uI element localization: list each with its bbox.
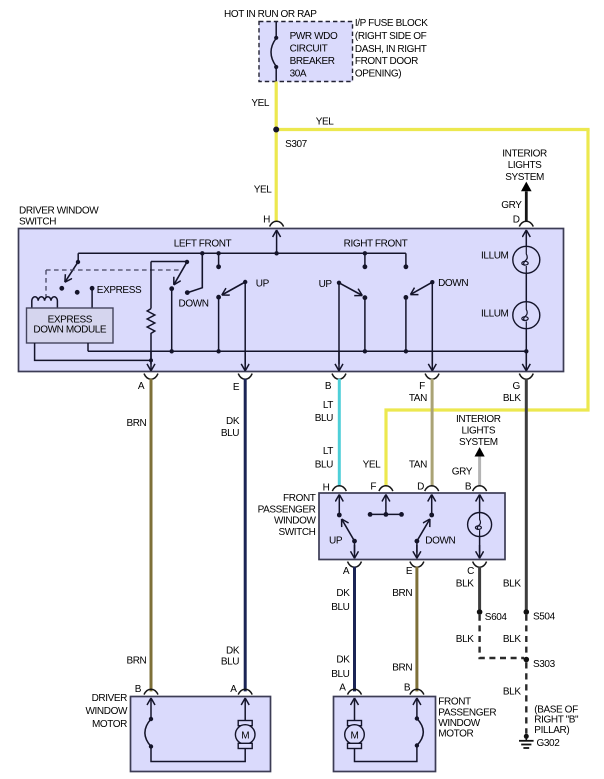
pin C arrow out of box [479,545,481,558]
svg-text:DRIVER: DRIVER [92,693,128,704]
motor M (passenger) [348,721,362,726]
wire between lamps [525,273,527,301]
node S303 [524,657,530,663]
svg-text:DK: DK [226,416,240,427]
wire BRN driver A to motor B [150,379,153,692]
svg-text:F: F [370,482,376,493]
switch lever RIGHT FRONT DOWN [410,282,432,294]
svg-text:BLK: BLK [456,579,474,590]
svg-text:PWR WDO: PWR WDO [290,31,338,42]
svg-text:LT: LT [323,446,333,457]
wire BLK dashed S504 to S303 [525,615,527,656]
switch lever (feed side, at rest) [189,253,203,292]
connector B (motor top) [410,689,424,694]
pin A arrow into motor [354,698,356,723]
svg-text:H: H [323,483,330,494]
connector A [144,374,158,380]
svg-text:LIGHTS: LIGHTS [461,426,495,437]
resistor R (feed to left front down) [150,262,152,309]
svg-text:DASH, IN RIGHT: DASH, IN RIGHT [355,44,427,55]
svg-text:SYSTEM: SYSTEM [505,172,544,183]
svg-text:RIGHT FRONT: RIGHT FRONT [344,239,408,250]
wire motor to breaker [355,746,417,762]
svg-text:LIGHTS: LIGHTS [508,160,542,171]
svg-text:BLK: BLK [503,579,521,590]
pin E arrow out of box [244,352,246,371]
node S504 [524,609,530,615]
contact node to ground [404,295,409,300]
svg-text:YEL: YEL [251,98,270,109]
svg-text:UP: UP [329,536,343,547]
switch lever PASSENGER DOWN [417,519,430,541]
svg-text:DOWN MODULE: DOWN MODULE [33,325,107,336]
pin F arrow into box [385,495,387,515]
connector H (top) [332,486,346,491]
svg-text:EXPRESS: EXPRESS [97,285,142,296]
pin H arrow into box [276,230,278,253]
pin G arrow out of box [525,352,527,371]
svg-text:DRIVER WINDOW: DRIVER WINDOW [19,206,99,217]
node S604 [477,609,483,615]
svg-text:BLK: BLK [456,634,474,645]
svg-text:S504: S504 [533,612,556,623]
switch lever EXPRESS [65,262,78,282]
motor M (driver) [238,721,252,726]
connector E (bottom) [410,562,424,568]
svg-text:DK: DK [226,646,240,657]
svg-text:S604: S604 [485,612,508,623]
wire express contact to module [91,288,93,308]
stub feed contact for RF UP [364,253,366,266]
svg-text:YEL: YEL [363,459,382,470]
pin A arrow out of box [150,352,152,371]
off-page arrow to interior lights [521,182,532,192]
svg-text:M: M [241,731,249,742]
node S307 [273,127,279,133]
wire BLK dashed S604 down and right to S303 [480,615,524,658]
wire internal top bus [78,252,406,254]
lamp ILLUM 1 [513,246,540,273]
inductor coil of express module [32,297,58,308]
svg-text:BLU: BLU [221,656,239,667]
mechanical linkage (dashed) [46,270,182,298]
svg-text:B: B [465,482,472,493]
module EXPRESS DOWN MODULE [27,308,114,343]
svg-text:BLU: BLU [331,669,349,680]
svg-text:GRY: GRY [452,467,473,478]
connector B (motor top) [144,689,158,694]
svg-text:(RIGHT SIDE OF: (RIGHT SIDE OF [355,31,427,42]
svg-text:BLK: BLK [503,393,521,404]
svg-text:BLK: BLK [503,634,521,645]
svg-text:30A: 30A [290,69,307,80]
svg-text:UP: UP [319,279,333,290]
wire module pin1 to pin A line [35,343,151,360]
svg-text:GRY: GRY [501,200,522,211]
circuit breaker (motor internal) [415,716,419,720]
connector F (top) [379,486,393,491]
svg-text:BLU: BLU [221,428,239,439]
svg-text:B: B [325,381,332,392]
connector D (top) [519,221,533,226]
contact node [169,286,174,291]
switch lever PASSENGER UP [342,519,355,541]
svg-text:LT: LT [323,400,333,411]
wire pin A line [354,541,356,552]
connector G [519,374,533,380]
wire resistor top link [151,261,187,263]
switch body [319,493,505,560]
pin H arrow into box [338,495,340,515]
connector A (motor top) [348,689,362,694]
svg-text:S307: S307 [285,139,308,150]
svg-text:MOTOR: MOTOR [438,729,473,740]
svg-text:BREAKER: BREAKER [290,56,335,67]
svg-text:F: F [419,381,425,392]
wire YEL branch S307 to right edge [276,128,589,131]
circuit breaker PWR WDO 30A [271,22,276,81]
connector E [238,374,252,380]
svg-text:B: B [135,684,142,695]
pin B arrow into motor [150,698,152,717]
wire pin B line [338,283,340,365]
svg-text:BLK: BLK [503,687,521,698]
svg-text:YEL: YEL [316,117,335,128]
svg-text:MOTOR: MOTOR [92,719,127,730]
svg-text:WINDOW: WINDOW [438,718,480,729]
svg-text:H: H [263,215,270,226]
svg-text:B: B [404,682,411,693]
circuit breaker (motor internal) [149,717,153,721]
svg-text:ILLUM: ILLUM [481,250,509,261]
svg-text:S303: S303 [533,659,556,670]
svg-text:D: D [513,215,520,226]
svg-text:BLU: BLU [315,459,333,470]
svg-text:YEL: YEL [254,185,273,196]
svg-text:INTERIOR: INTERIOR [502,149,547,160]
wire BLK passenger C to S604 [478,567,481,610]
wire internal ground bus [88,350,526,352]
connector A (motor top) [238,689,252,694]
svg-text:WINDOW: WINDOW [274,516,316,527]
svg-text:TAN: TAN [409,459,427,470]
wire resistor to pin A exit [150,336,152,365]
svg-text:UP: UP [256,278,270,289]
svg-text:BLU: BLU [315,413,333,424]
wire F contact bar [370,513,401,515]
off-page arrow to interior lights [475,447,485,456]
svg-text:SWITCH: SWITCH [19,217,56,228]
wire lamp to ground bus and pin G [525,329,527,365]
switch lever LEFT FRONT UP [222,282,245,295]
stub feed contact for UP [218,253,220,266]
contact node EXPRESS [90,286,95,291]
svg-text:PASSENGER: PASSENGER [438,707,496,718]
node H on bus [274,251,278,255]
svg-text:A: A [230,684,237,695]
svg-text:TAN: TAN [409,393,427,404]
pin B arrow out of box [338,352,340,371]
pin D arrow into box [525,230,527,246]
wire breaker to motor [151,747,245,762]
connector H (top) [270,221,284,226]
svg-text:G302: G302 [537,738,561,749]
contact node to ground [363,295,368,300]
svg-text:SWITCH: SWITCH [278,527,315,538]
connector A (bottom) [348,562,362,568]
wire YEL from breaker to S307 and on to switch pin H [275,82,278,222]
svg-text:INTERIOR: INTERIOR [456,414,501,425]
lamp ILLUM 2 [513,302,540,329]
stub feed contact for RF DOWN [405,253,407,266]
wire DK BLU passenger A to motor A [353,567,356,692]
pin A arrow into motor [244,698,246,723]
switch body [19,229,564,372]
svg-text:BRN: BRN [126,418,146,429]
svg-text:E: E [406,566,413,577]
svg-text:ILLUM: ILLUM [481,309,509,320]
wire pin E line [416,541,418,552]
wire BLK dashed S303 to ground [525,662,527,733]
rest contact node [75,290,80,295]
connector B (top) [473,486,487,491]
pin F arrow out of box [431,352,433,371]
wire bus drop to express switch [77,253,79,261]
svg-text:BRN: BRN [392,663,412,674]
wire BLK driver G to S504 [525,379,528,610]
wire module pin2 to ground bus [87,343,89,351]
svg-text:A: A [339,682,346,693]
contact node [59,286,64,291]
motor body [334,697,436,772]
motor body [131,697,271,772]
wire YEL right edge down and left to passenger switch pin F [386,130,588,487]
svg-text:HOT IN RUN OR RAP: HOT IN RUN OR RAP [224,9,317,20]
lamp illumination (passenger) [468,513,492,537]
svg-text:E: E [233,382,240,393]
svg-text:LEFT FRONT: LEFT FRONT [174,238,232,249]
svg-text:I/P FUSE BLOCK: I/P FUSE BLOCK [355,18,428,29]
pin A arrow out of box [354,545,356,558]
wire GRY stem to passenger pin B [478,457,481,487]
svg-text:FRONT: FRONT [438,697,471,708]
svg-text:DK: DK [336,655,350,666]
svg-text:WINDOW: WINDOW [86,706,128,717]
svg-text:OPENING): OPENING) [355,69,401,80]
svg-text:BRN: BRN [126,656,146,667]
wire contact to ground bus [171,289,173,352]
contact node to ground [216,295,221,300]
svg-text:A: A [343,566,350,577]
wire pin E line [244,282,246,364]
svg-text:BLU: BLU [331,602,349,613]
svg-text:DOWN: DOWN [179,298,209,309]
svg-text:BRN: BRN [392,588,412,599]
wire GRY stem to pin D [525,191,528,221]
svg-text:M: M [351,731,359,742]
svg-text:PASSENGER: PASSENGER [258,504,316,515]
svg-text:G: G [513,381,521,392]
pin D arrow into box [431,495,433,515]
pin E arrow out of box [416,545,418,558]
pin B arrow into box [479,495,481,513]
svg-text:CIRCUIT: CIRCUIT [290,44,328,55]
switch lever RIGHT FRONT UP [339,283,362,296]
wire BRN passenger E to motor B [415,567,418,692]
svg-text:D: D [417,482,424,493]
wire LT BLU driver B to passenger H [338,379,341,487]
svg-text:PILLAR): PILLAR) [534,725,569,736]
connector D (top) [425,486,439,491]
svg-text:DOWN: DOWN [425,536,455,547]
wire TAN driver F to passenger D [431,379,434,487]
svg-text:FRONT: FRONT [283,493,316,504]
I/P fuse block (dashed box) [259,22,353,82]
wire pin F line [431,282,433,364]
svg-text:SYSTEM: SYSTEM [459,437,498,448]
connector C (bottom) [473,562,487,568]
connector F [425,374,439,380]
pin B arrow into motor [416,698,418,717]
svg-text:FRONT DOOR: FRONT DOOR [355,56,418,67]
connector B [332,374,346,380]
svg-text:C: C [467,566,474,577]
svg-text:A: A [138,381,145,392]
svg-text:DK: DK [336,588,350,599]
wire DK BLU driver E to motor A [244,379,247,692]
ground G302 [524,734,529,739]
svg-text:DOWN: DOWN [438,278,468,289]
switch lever LEFT FRONT DOWN [174,262,187,285]
wire lamp to pin C [479,537,481,553]
